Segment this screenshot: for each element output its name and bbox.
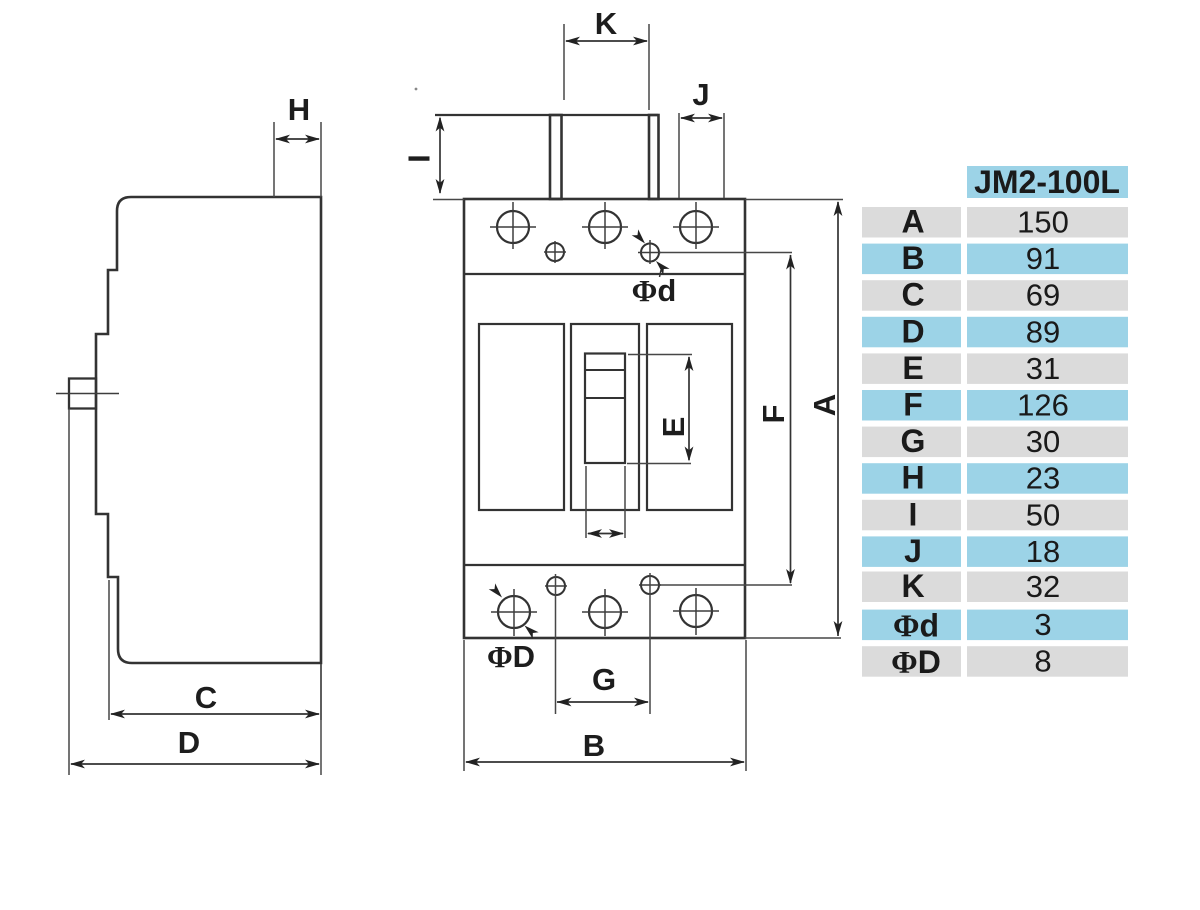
small hole top left [546,243,564,261]
svg-text:I: I [402,154,437,163]
bottom strip hole right [680,595,712,627]
crosshair bottom hole left [491,589,537,636]
table row F [862,387,1128,423]
dimension H arrow line [275,135,320,144]
handle width arrow line [587,529,624,538]
dimension A line [834,201,843,636]
dimension I line [436,117,445,195]
handle [585,354,625,464]
small hole bottom left [547,577,565,595]
svg-text:A: A [901,204,924,240]
svg-text:150: 150 [1017,205,1069,240]
table header cell [967,164,1128,200]
svg-text:ΦD: ΦD [891,644,941,680]
dimension B extension lines [464,640,746,771]
top strip hole middle [589,211,621,243]
leader arrows Phi-D [489,583,539,638]
handle inner line 1 [585,369,625,371]
svg-text:ΦD: ΦD [487,639,535,674]
svg-text:F: F [903,387,923,423]
svg-text:H: H [901,460,924,496]
protrusion centerline [56,393,119,395]
table row E [862,350,1128,386]
svg-text:91: 91 [1026,241,1060,276]
table row G [862,423,1128,459]
svg-text:C: C [195,680,217,715]
dimension C extension lines [109,580,321,720]
table row Phi-D [862,644,1128,680]
right mounting tab [649,115,659,199]
bottom strip hole middle [589,596,621,628]
crosshair small hole bottom right [639,584,661,586]
top strip hole left [497,211,529,243]
table row A [862,204,1128,240]
svg-text:89: 89 [1026,314,1060,349]
crosshair top hole right [673,202,719,249]
left panel [479,324,564,510]
svg-text:8: 8 [1034,644,1051,679]
middle panel [571,324,639,510]
svg-text:69: 69 [1026,278,1060,313]
left mounting tab [550,115,562,199]
small hole bottom right [641,576,659,594]
top edge extension lines [433,199,843,201]
crosshair bottom hole middle [582,589,628,636]
crosshair top hole left [490,202,536,249]
handle inner line 2 [585,397,625,399]
top strip hole right [680,211,712,243]
crosshair bottom hole right [673,588,719,635]
svg-text:B: B [901,240,924,276]
stray ink speck [415,88,418,91]
svg-text:Φd: Φd [893,608,939,644]
crosshair small hole top left [544,241,566,263]
svg-text:A: A [807,394,842,416]
dimension E extension lines [627,355,692,464]
bottom edge extension line [745,637,841,639]
dimension G arrow line [557,698,650,707]
svg-text:D: D [178,725,200,760]
crosshair small hole bottom left [545,585,567,587]
dimension H extension lines [274,122,321,197]
dimension K extension lines [564,24,649,110]
table row Phi-d [862,607,1128,643]
dimension C arrow line [110,710,320,719]
table row B [862,240,1128,276]
svg-text:I: I [909,496,918,532]
top strip divider line [464,273,745,275]
svg-text:K: K [595,6,618,41]
dimension F extension lines [659,253,792,586]
dimension B arrow line [465,758,745,767]
side view body outline [96,197,321,663]
svg-text:32: 32 [1026,569,1060,604]
svg-text:C: C [901,277,924,313]
svg-text:F: F [756,405,791,424]
svg-text:30: 30 [1026,424,1060,459]
terminal protrusion on side view [69,379,96,409]
top terminal cover line [435,114,658,116]
svg-text:126: 126 [1017,388,1069,423]
leader arrows Phi-d [632,229,670,277]
svg-text:JM2-100L: JM2-100L [974,164,1120,200]
svg-text:E: E [902,350,923,386]
small hole top right (d hole) [641,244,659,262]
svg-text:B: B [583,728,605,763]
dimension J extension lines [679,113,724,198]
svg-text:18: 18 [1026,534,1060,569]
svg-text:K: K [901,568,924,604]
svg-text:D: D [901,313,924,349]
svg-text:G: G [592,662,616,697]
bottom strip hole left (D hole) [498,596,530,628]
right panel [647,324,732,510]
front view body rectangle [464,199,745,638]
svg-text:J: J [692,77,709,112]
dimension K arrow line [565,37,648,46]
table row I [862,496,1128,532]
svg-text:31: 31 [1026,351,1060,386]
svg-text:H: H [288,92,310,127]
crosshair top hole middle [582,202,628,249]
bottom strip divider line [464,564,745,566]
svg-text:J: J [904,533,922,569]
svg-text:23: 23 [1026,461,1060,496]
table row J [862,533,1128,569]
svg-text:3: 3 [1034,607,1051,642]
dimension J arrow line [680,114,723,123]
table row C [862,277,1128,313]
dimension D extension line left [69,409,321,776]
dimension F line [786,255,795,585]
svg-text:50: 50 [1026,497,1060,532]
svg-text:G: G [901,423,926,459]
dimension E line [685,356,694,462]
table row D [862,313,1128,349]
table row H [862,460,1128,496]
table row K [862,568,1128,604]
handle width extension lines [586,466,625,538]
svg-text:Φd: Φd [632,273,677,308]
crosshair small hole top right [638,240,661,264]
dimension G extension lines [556,573,651,714]
dimension D arrow line [70,760,320,769]
svg-text:E: E [656,417,691,438]
